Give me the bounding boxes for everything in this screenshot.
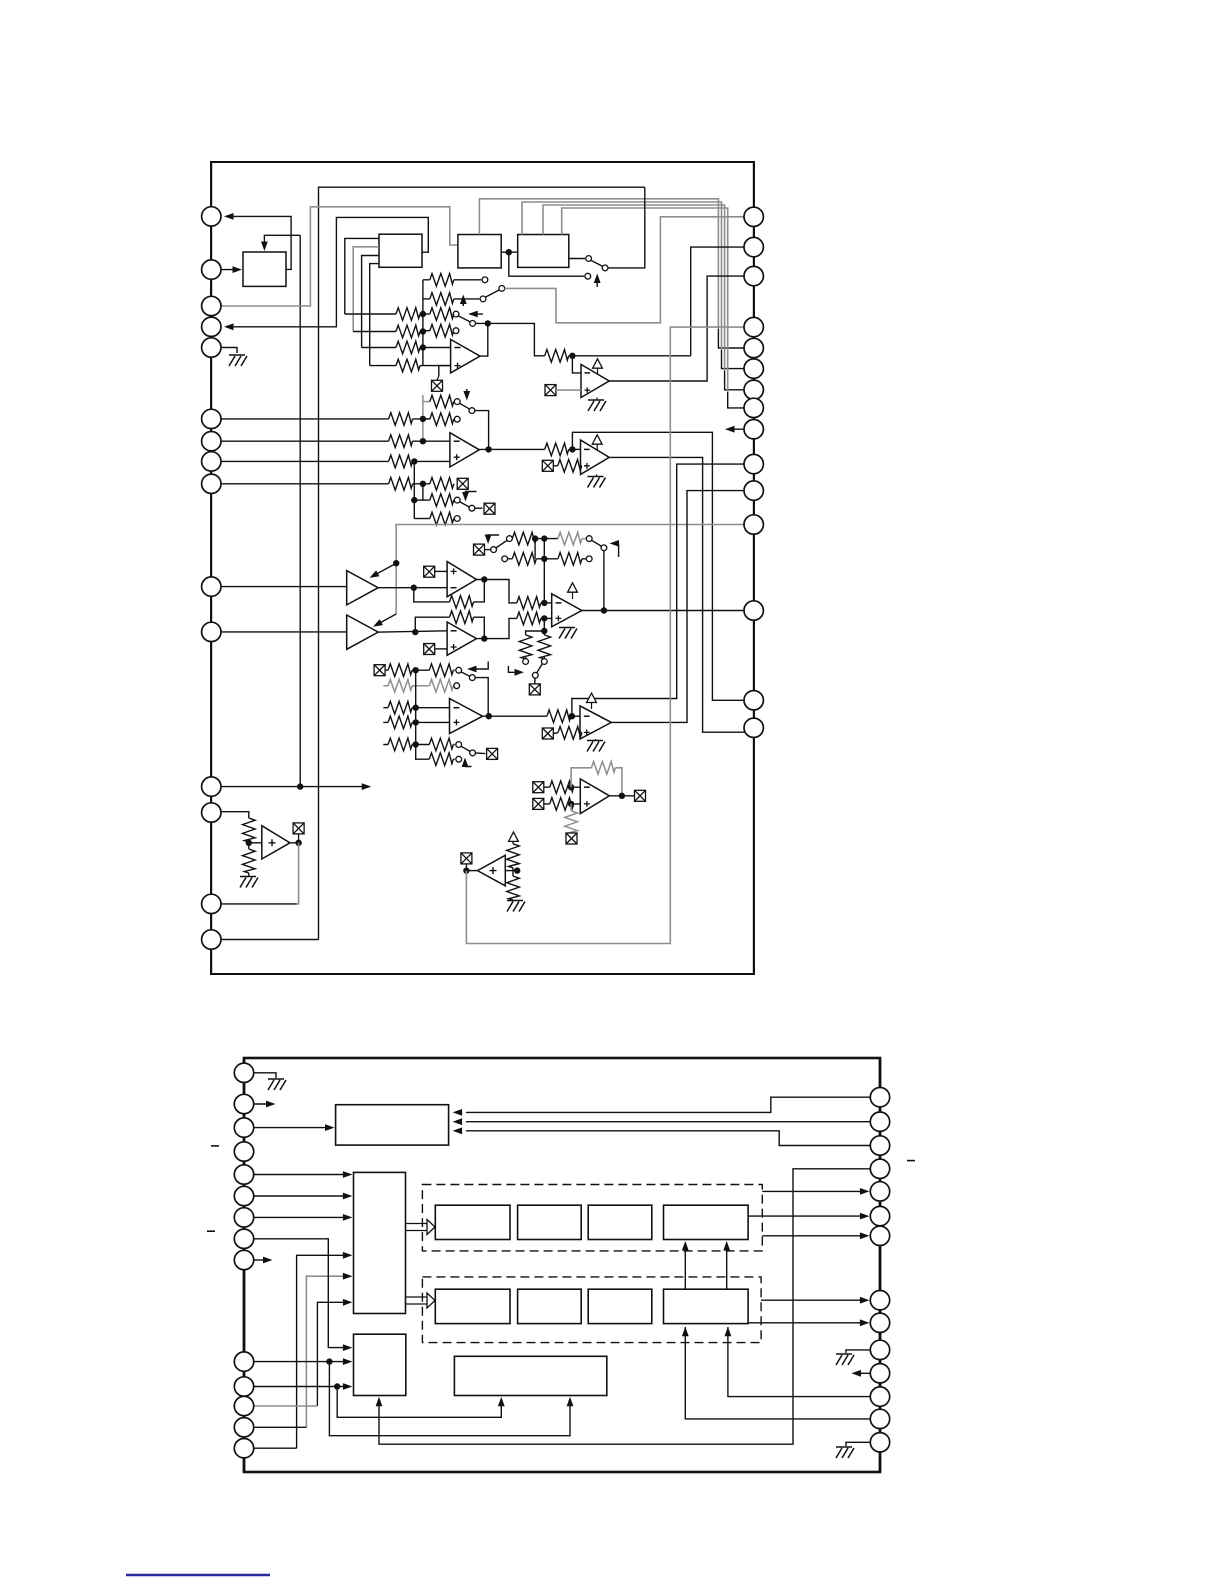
pin786 wire with arrow — [221, 786, 368, 788]
signal box U10 in1 — [533, 782, 544, 793]
pin R15 — [744, 718, 763, 737]
S bottom arrow long feedback from right pin — [379, 1169, 870, 1444]
pin B-R6 — [870, 1206, 889, 1225]
op-amp U6 (minus top) — [447, 622, 476, 655]
gray net from R2 switch to right pin 216.8 — [505, 217, 745, 323]
pin L1 — [202, 207, 221, 226]
op-amp U7 — [552, 594, 582, 627]
pin L15 — [202, 930, 221, 949]
pin L14 — [202, 894, 221, 913]
pin B-R4 — [870, 1159, 889, 1178]
pin L12 — [202, 777, 221, 796]
U3 feedback row fb1 with switch — [423, 401, 430, 403]
U7 feedback riser — [603, 551, 605, 611]
pin B-R5 — [870, 1182, 889, 1201]
U2 output to right pin 276 — [609, 276, 744, 381]
margin dash left upper — [211, 1145, 219, 1147]
U7 feedback rows — [474, 544, 485, 555]
left arrow above R3 switch — [470, 313, 483, 315]
op-amp U3 — [450, 433, 479, 467]
resistor row R3 body — [430, 308, 454, 321]
row2 box 2 — [518, 1289, 582, 1323]
U7 output to right pin 609 — [582, 610, 744, 612]
S input arrows — [254, 1239, 349, 1348]
pin B-R12 — [870, 1387, 889, 1406]
pin B-R1 — [870, 1088, 889, 1107]
pin B-L11 — [234, 1377, 253, 1396]
op-amp U8 — [450, 699, 483, 734]
pin B-L7 — [234, 1208, 253, 1227]
wire: pin3 gray to B2 — [221, 207, 458, 306]
U8 node to right pin 464 — [572, 464, 744, 716]
U3 output node — [479, 448, 544, 450]
pin 812 wire and input resistor — [221, 812, 249, 818]
U4 minus net to right pin 698 — [572, 432, 744, 700]
U11 right node — [505, 870, 520, 872]
right pin arrow stub — [855, 1372, 870, 1374]
pin L7 — [202, 432, 221, 451]
pin B-R9 — [870, 1313, 889, 1332]
right ground stub lower — [846, 1442, 870, 1446]
row2 box4 bottom arrows from right pins — [728, 1327, 871, 1397]
right pins IC2 — [879, 1058, 882, 1472]
row F — [416, 745, 455, 760]
pin903 wire — [221, 903, 297, 905]
IC2 outer boundary — [244, 1058, 880, 1472]
row E with switch to xbox — [383, 744, 454, 746]
buffer2 out to U6 minus — [378, 631, 447, 632]
op-amp U5 (plus on top) — [447, 562, 476, 597]
row2 box 3 — [588, 1289, 652, 1323]
pin B-L10 — [234, 1352, 253, 1371]
wire: pin939 stub — [211, 939, 318, 941]
op-amp U4 — [581, 440, 610, 474]
box B3 — [518, 235, 569, 268]
row2 box 1 — [435, 1289, 510, 1323]
bus arrow D to row1 — [406, 1224, 428, 1231]
gray drop from output to pin903 wire — [297, 843, 299, 904]
U9 output to right pin 490 — [611, 491, 744, 723]
box S — [354, 1334, 406, 1395]
U5 output — [477, 580, 517, 603]
pin B-L9 — [234, 1250, 253, 1269]
pin R9 with left arrow — [744, 420, 763, 439]
pin L5 — [202, 338, 221, 357]
pin L2 — [202, 260, 221, 279]
wire: pin2 arrow into A1 — [221, 269, 239, 271]
down arrow at fb1 switch — [466, 389, 468, 398]
pin 586 wire — [221, 586, 347, 588]
pin R3 — [744, 266, 763, 285]
row1 box 1 — [435, 1205, 510, 1239]
op-amp U10 — [580, 779, 609, 814]
switch common to top rail — [608, 187, 645, 268]
signal box U9+ and resistor — [542, 728, 553, 739]
pin B-L9 arrow stub — [254, 1259, 269, 1261]
U3 feedback row fb2 — [423, 418, 430, 420]
pin B-L3 — [234, 1118, 253, 1137]
box W — [454, 1356, 606, 1395]
up arrow below R2 lever — [462, 297, 464, 307]
series resistor to U9 — [547, 710, 571, 723]
network1 feedback row R1 — [423, 279, 481, 281]
U11 output node and signal box — [466, 870, 477, 872]
arrowhead into pin1 — [224, 213, 234, 220]
wire: B1 left stub verticals — [345, 238, 379, 314]
pin B-R7 — [870, 1226, 889, 1245]
pin B-R3 — [870, 1136, 889, 1155]
input resistors from left pins — [221, 418, 423, 420]
signal box U10 in2 — [533, 798, 544, 809]
wire: A1 top input from bus — [264, 235, 300, 248]
elbow up arrow row F — [465, 760, 472, 767]
signal box U1+ — [432, 380, 443, 391]
pin R4 — [744, 317, 763, 336]
W bottom arrows from pins 10/11 — [337, 1387, 501, 1418]
network1 bus — [422, 280, 424, 366]
signal box above output — [298, 834, 300, 843]
pin R8 — [744, 398, 763, 417]
network1 feedback row R2 + switch to gray net — [423, 298, 479, 300]
control elbow arrow left switch — [488, 535, 499, 541]
pin L4 — [202, 317, 221, 336]
series resistor to U4 — [545, 443, 569, 456]
bus3 vertical — [415, 670, 417, 744]
U7 power triangle — [568, 583, 578, 592]
signal box U4+ and resistor — [542, 460, 553, 471]
left pins IC2 — [243, 1058, 246, 1472]
signal box U6+ — [424, 644, 435, 655]
network2 switch row to xbox — [414, 499, 430, 501]
wire to right pin 247 from node — [691, 247, 744, 356]
box A1 — [243, 252, 286, 286]
D inputs from pins 5-7 — [254, 1174, 349, 1176]
pin B-R10 — [870, 1340, 889, 1359]
U1 + input drop to xbox — [439, 366, 451, 376]
pin B-R11 — [870, 1364, 889, 1383]
buffer control arrows — [372, 563, 396, 576]
U10 plus divider resistor down to signal box — [570, 804, 572, 811]
pin R5 — [744, 338, 763, 357]
box B1 — [379, 234, 422, 267]
U4 ground — [596, 474, 598, 476]
right pin plain wires — [869, 1096, 871, 1098]
wire: pin5 ground stub — [221, 348, 237, 354]
wire: net P top horizontal — [319, 187, 645, 939]
pin 631 wire — [221, 631, 347, 633]
right ground stub upper — [846, 1350, 870, 1353]
signal box feed — [374, 665, 385, 676]
gray net from U11 to right pin 327 — [466, 327, 744, 943]
U10 output — [609, 795, 634, 797]
op-amp U2 — [581, 364, 609, 397]
dashed register bank 2 — [422, 1277, 761, 1343]
U7 ground — [567, 626, 569, 629]
row1 box 2 — [518, 1205, 582, 1239]
U12 output node — [290, 842, 299, 844]
wire: B2 top riser gray — [479, 199, 718, 329]
wire U2 minus input — [572, 356, 581, 373]
inter-bank arrows row2->row1 — [684, 1244, 686, 1289]
network2 lower row to xbox — [423, 483, 454, 485]
signal box U2+ with gray lead — [545, 385, 556, 396]
U6 output — [477, 618, 517, 638]
op-amp U1 — [451, 339, 480, 373]
switch lever B3 — [591, 260, 603, 266]
U5 feedback loop — [414, 580, 485, 602]
buffer B-2 — [347, 615, 379, 649]
network1 row R4 — [423, 330, 454, 332]
up arrow at switch — [596, 276, 598, 288]
control elbow arrow divider switch — [508, 666, 521, 672]
pin L8 — [202, 452, 221, 471]
U6 feedback loop — [415, 617, 484, 638]
long bus x300 from A1-top to pin 903 — [299, 235, 301, 786]
margin dash right — [907, 1160, 915, 1162]
pin B-L6 — [234, 1186, 253, 1205]
gray control net from right pin 524 — [396, 525, 744, 615]
signal box U5+ — [424, 566, 435, 577]
pin R10 — [744, 454, 763, 473]
switch after B3: pole contacts — [569, 258, 585, 260]
lower resistor to ground — [243, 849, 256, 873]
arrowhead into A1 top — [261, 242, 268, 252]
network1: B1 feed rows with resistors — [345, 313, 423, 315]
pin L11 — [202, 622, 221, 641]
U4 power triangle — [592, 435, 602, 444]
U4 output to right pin 727 — [609, 457, 745, 732]
left elbow arrow row A — [470, 662, 488, 670]
wire: pin4 net to B1 right — [226, 217, 428, 326]
margin dash left lower — [207, 1230, 215, 1232]
row D (U8 plus) — [383, 721, 449, 723]
dashed register bank 1 — [422, 1185, 762, 1251]
wire: A1 output to pin1 — [226, 216, 291, 269]
U9 power triangle — [587, 693, 597, 702]
box T — [336, 1105, 449, 1145]
row B gray — [383, 685, 454, 687]
upper resistor to power triangle — [512, 841, 514, 870]
bank outputs to right pins — [762, 1190, 866, 1192]
op-amp U12 — [262, 826, 290, 859]
pin R6 — [744, 359, 763, 378]
pin B-R13 — [870, 1409, 889, 1428]
pin B-L13 — [234, 1418, 253, 1437]
pin L13 — [202, 803, 221, 822]
U8 output — [483, 715, 547, 717]
bus2b — [414, 461, 423, 518]
pin B-L2 — [234, 1094, 253, 1113]
series resistor to U2 — [545, 350, 569, 363]
wire: B3 top risers gray — [522, 202, 722, 350]
pin B-R14 — [870, 1433, 889, 1452]
bus arrow D to row2 — [406, 1297, 428, 1304]
pin B-L12 — [234, 1396, 253, 1415]
ground at pin5 — [229, 355, 247, 366]
row2 box 4 — [664, 1289, 749, 1323]
pin L10 — [202, 577, 221, 596]
op-amp U9 — [580, 706, 611, 739]
pin L6 — [202, 409, 221, 428]
U2 power triangle — [593, 359, 603, 368]
pin B-L8 — [234, 1229, 253, 1248]
pin B-L1 — [234, 1063, 253, 1082]
U1 output riser to switch common — [480, 323, 488, 356]
arrowhead into pin4 — [224, 323, 234, 330]
pin R14 — [744, 691, 763, 710]
control elbow arrow right switch — [612, 543, 619, 557]
pin B-L14 — [234, 1439, 253, 1458]
pin R2 — [744, 237, 763, 256]
box B2 — [458, 235, 501, 268]
U7 feedback row2 — [502, 556, 508, 562]
pin R11 — [744, 481, 763, 500]
pin R7 — [744, 380, 763, 399]
pin B-L4 — [234, 1142, 253, 1161]
pin R13 — [744, 601, 763, 620]
wire: riser bundle to pin group — [718, 329, 744, 408]
row1 box 4 — [664, 1205, 749, 1239]
U9 ground — [595, 739, 597, 741]
box T right inputs from right pins — [466, 1097, 870, 1112]
U7 plus divider resistors — [526, 618, 545, 635]
U7 input resistors — [517, 597, 541, 610]
pin B-L2 arrow stub — [254, 1103, 272, 1105]
network2 bottom row — [414, 518, 430, 520]
buffer1 out to U5 minus — [378, 587, 447, 589]
pin B-L1 ground stub — [254, 1073, 276, 1078]
row C (U8 minus) — [383, 707, 449, 709]
riser inputs to D — [297, 1255, 349, 1448]
elbow down-arrow at switch — [466, 492, 477, 499]
wire: B2 to B3 with junction — [501, 251, 518, 253]
footer blue rule — [126, 1574, 270, 1576]
row A with feedback switch — [385, 669, 455, 671]
pin R12 — [744, 515, 763, 534]
buffer B-1 — [347, 571, 379, 605]
pin B-L5 — [234, 1165, 253, 1184]
U2 ground — [596, 398, 598, 401]
pin B-R8 — [870, 1291, 889, 1310]
feedback bus vertical — [543, 539, 545, 603]
network1 row R3 with switch to common — [423, 313, 430, 315]
pin L9 — [202, 474, 221, 493]
pin B-L3 to box T — [254, 1127, 331, 1129]
decoder box D — [354, 1172, 406, 1313]
bus2a — [423, 395, 430, 441]
U10 feedback resistor loop (gray) — [571, 768, 622, 796]
row1 box 3 — [588, 1205, 652, 1239]
pin R1 — [744, 207, 763, 226]
lower resistor to ground — [512, 871, 514, 901]
pin L3 — [202, 296, 221, 315]
IC1 outer boundary — [211, 162, 754, 974]
pin B-R2 — [870, 1112, 889, 1131]
